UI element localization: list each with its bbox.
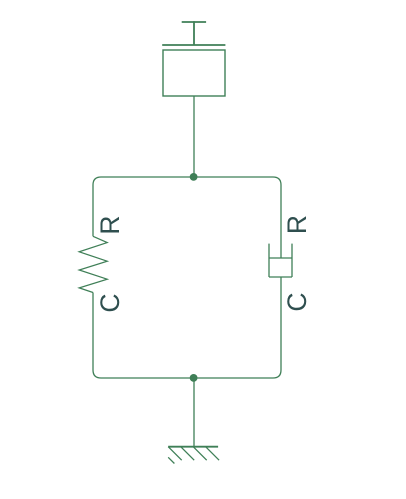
node A junction dot: [190, 173, 198, 181]
wire top rail with corners down to resistor and damper piston: [93, 177, 281, 258]
ground hatch 2: [181, 447, 195, 461]
svg-text:C: C: [282, 292, 312, 311]
svg-text:R: R: [95, 215, 125, 234]
mass block M: [163, 50, 225, 96]
ground hatch 4: [206, 447, 220, 461]
wire node B to ground: [193, 378, 195, 447]
damper piston plate: [269, 257, 292, 259]
node B junction dot: [190, 374, 198, 382]
terminal T1 top bar: [182, 21, 206, 23]
damper cup right wall: [291, 244, 293, 277]
svg-text:C: C: [95, 293, 125, 312]
svg-text:R: R: [282, 215, 312, 234]
ground hatch partial: [168, 457, 174, 463]
wire mass to node A: [193, 96, 195, 177]
plate electrode bar: [162, 44, 225, 46]
damper cup left wall: [268, 244, 270, 277]
resistor R zigzag (left branch spring): [79, 236, 107, 292]
terminal T1 stem wire: [193, 21, 195, 45]
ground hatch 3: [193, 447, 207, 461]
wire bottom rail with corners from resistor to damper cup: [93, 277, 281, 378]
ground hatch 1: [168, 447, 182, 461]
ground bar: [168, 446, 218, 448]
damper cup bottom: [269, 276, 292, 278]
